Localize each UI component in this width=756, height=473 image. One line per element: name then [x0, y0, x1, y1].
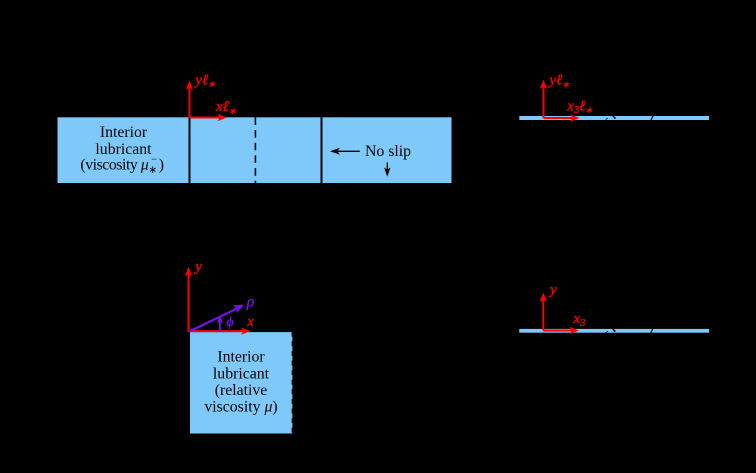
svg-text:Interior: Interior — [217, 349, 265, 366]
svg-text:Interior: Interior — [100, 124, 148, 141]
svg-text:y: y — [193, 259, 202, 275]
svg-text:lubricant: lubricant — [95, 141, 152, 158]
svg-text:(viscosity μ∗−): (viscosity μ∗−) — [80, 155, 163, 177]
svg-text:No slip: No slip — [365, 143, 411, 160]
svg-text:lubricant: lubricant — [213, 366, 270, 383]
svg-text:x: x — [246, 314, 254, 330]
svg-text:ρ: ρ — [246, 294, 255, 311]
svg-text:(relative: (relative — [215, 382, 268, 399]
svg-text:viscosity μ): viscosity μ) — [204, 399, 277, 416]
svg-text:y: y — [548, 282, 557, 298]
svg-text:ϕ: ϕ — [226, 315, 233, 330]
